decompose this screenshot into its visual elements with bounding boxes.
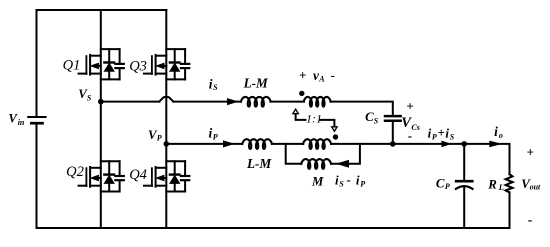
svg-text:P: P <box>157 134 162 143</box>
svg-text:L-M: L-M <box>243 76 269 91</box>
svg-text:out: out <box>530 183 541 192</box>
svg-text:-: - <box>408 128 412 143</box>
svg-text:+: + <box>299 68 306 83</box>
svg-text:L: L <box>498 182 504 192</box>
svg-text:Cs: Cs <box>411 123 419 132</box>
svg-text:P: P <box>213 133 218 142</box>
svg-text:C: C <box>365 110 374 124</box>
svg-text:M: M <box>311 174 324 188</box>
svg-text:S: S <box>450 133 455 142</box>
svg-text:C: C <box>436 176 445 190</box>
svg-text:P: P <box>432 133 437 142</box>
svg-text:Q2: Q2 <box>66 164 84 180</box>
svg-text:S: S <box>87 93 92 102</box>
svg-text:in: in <box>18 118 25 127</box>
svg-text:i: i <box>494 124 498 139</box>
svg-text:+: + <box>438 126 445 140</box>
svg-text:R: R <box>487 177 497 191</box>
svg-text:+: + <box>406 99 413 114</box>
svg-text:A: A <box>318 75 325 84</box>
svg-text:P: P <box>360 180 365 189</box>
svg-text:-: - <box>346 172 350 187</box>
svg-text:L-M: L-M <box>246 156 272 171</box>
svg-text:+: + <box>527 144 534 159</box>
svg-text:S: S <box>339 180 344 189</box>
svg-text:Q4: Q4 <box>129 167 147 183</box>
svg-text:Q1: Q1 <box>63 57 81 73</box>
svg-text:o: o <box>499 131 503 140</box>
svg-text:S: S <box>213 83 218 92</box>
svg-text:-: - <box>331 67 335 82</box>
svg-text:-: - <box>528 213 533 228</box>
svg-text:1:1: 1:1 <box>306 112 322 126</box>
svg-text:Q3: Q3 <box>129 58 147 74</box>
svg-text:P: P <box>445 182 450 191</box>
svg-text:S: S <box>374 116 379 125</box>
